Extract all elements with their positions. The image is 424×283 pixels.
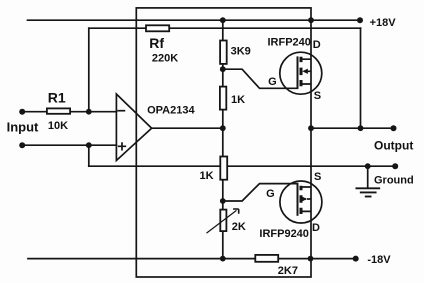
svg-text:OPA2134: OPA2134 bbox=[147, 104, 195, 116]
svg-text:220K: 220K bbox=[152, 52, 178, 64]
svg-text:IRFP9240: IRFP9240 bbox=[259, 228, 309, 240]
svg-text:IRFP240: IRFP240 bbox=[268, 36, 311, 48]
svg-text:3K9: 3K9 bbox=[231, 46, 251, 58]
svg-text:1K: 1K bbox=[231, 94, 245, 106]
svg-text:G: G bbox=[266, 188, 275, 200]
svg-text:10K: 10K bbox=[48, 120, 68, 132]
svg-text:2K: 2K bbox=[232, 221, 246, 233]
svg-text:S: S bbox=[314, 171, 321, 183]
svg-text:Output: Output bbox=[374, 138, 413, 152]
svg-text:-18V: -18V bbox=[367, 254, 391, 266]
svg-text:+18V: +18V bbox=[370, 17, 397, 29]
svg-text:2K7: 2K7 bbox=[278, 265, 298, 277]
svg-text:D: D bbox=[313, 39, 321, 51]
svg-text:G: G bbox=[268, 76, 277, 88]
svg-text:1K: 1K bbox=[200, 170, 214, 182]
svg-text:S: S bbox=[314, 90, 321, 102]
svg-text:R1: R1 bbox=[48, 90, 66, 106]
svg-text:D: D bbox=[312, 222, 320, 234]
svg-text:Input: Input bbox=[7, 120, 39, 135]
svg-text:Rf: Rf bbox=[149, 35, 164, 51]
svg-text:Ground: Ground bbox=[374, 175, 414, 187]
